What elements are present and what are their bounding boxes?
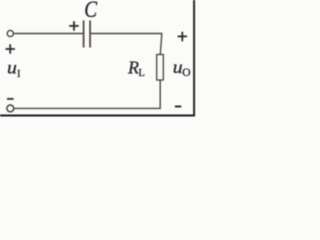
svg-text:I: I xyxy=(17,69,20,80)
svg-text:C: C xyxy=(84,0,97,22)
svg-text:u: u xyxy=(7,58,17,78)
svg-text:O: O xyxy=(182,67,190,79)
svg-text:u: u xyxy=(173,58,183,78)
svg-text:L: L xyxy=(138,68,144,79)
svg-text:R: R xyxy=(127,58,139,78)
